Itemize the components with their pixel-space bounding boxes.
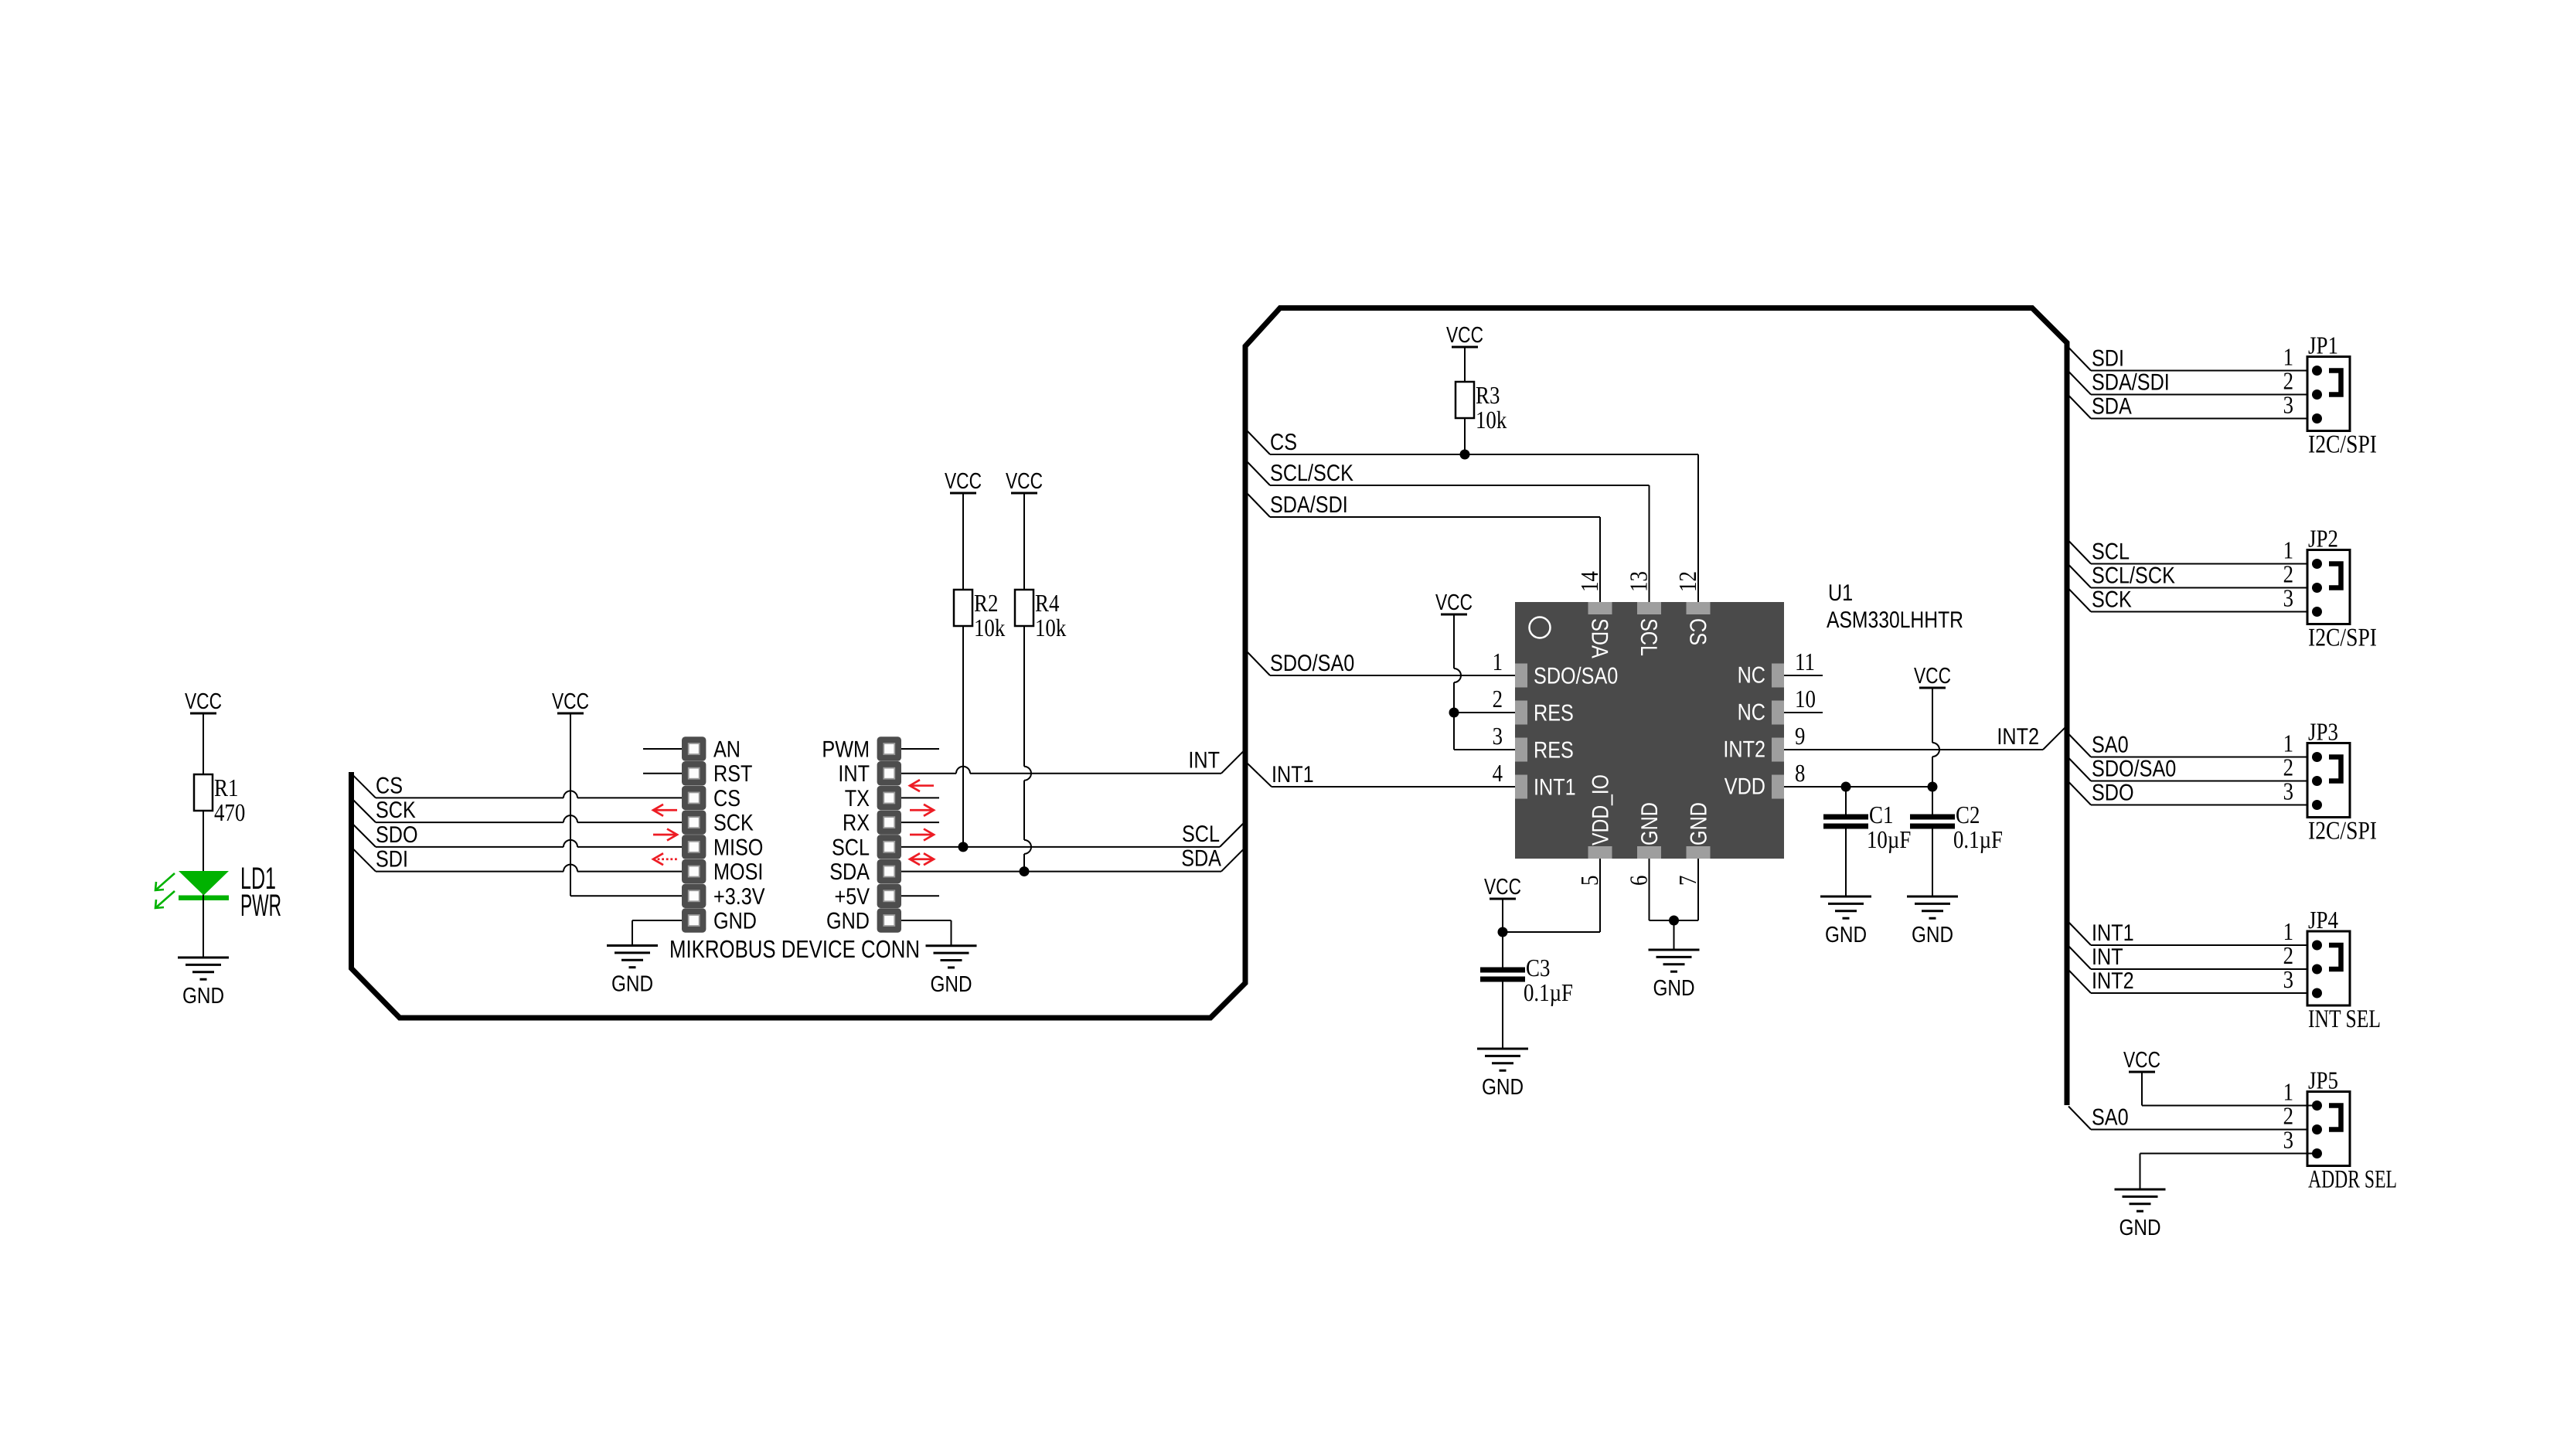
net SCK stub from bus frame to jumper: [2068, 587, 2317, 613]
svg-text:VCC: VCC: [1435, 590, 1473, 615]
svg-text:GND: GND: [611, 972, 653, 997]
connector JP3 (I2C/SPI) 1x3 header: [2283, 718, 2377, 845]
svg-text:3: 3: [2283, 965, 2293, 993]
svg-text:INT SEL: INT SEL: [2308, 1005, 2381, 1033]
connector JP2 (I2C/SPI) 1x3 header: [2283, 525, 2377, 652]
bus frame outline: [352, 308, 2068, 1106]
svg-text:INT: INT: [2092, 944, 2123, 970]
svg-text:VCC: VCC: [945, 469, 982, 494]
wire VCC junction to U1 pin 5: [1503, 859, 1600, 932]
net SDO/SA0 from bus frame to U1 pin 1: [1248, 651, 1515, 676]
net INT1 stub from bus frame to jumper: [2068, 920, 2317, 946]
svg-text:RES: RES: [1534, 738, 1574, 764]
wire stub RX: [901, 822, 939, 823]
power flag VCC at (1944,1163): [1484, 875, 1521, 900]
svg-text:VCC: VCC: [552, 689, 589, 714]
wire junction to C3: [1502, 932, 1503, 968]
wire left header GND to ground: [632, 920, 682, 946]
svg-text:VCC: VCC: [1006, 469, 1043, 494]
svg-text:I2C/SPI: I2C/SPI: [2308, 624, 2377, 652]
svg-text:VCC: VCC: [2123, 1048, 2160, 1073]
svg-text:JP5: JP5: [2308, 1066, 2338, 1094]
svg-text:CS: CS: [376, 773, 403, 798]
svg-text:GND: GND: [1482, 1075, 1524, 1100]
svg-text:C2: C2: [1956, 801, 1980, 828]
svg-text:10k: 10k: [1476, 406, 1507, 434]
svg-text:GND: GND: [182, 984, 224, 1009]
svg-text:10k: 10k: [974, 614, 1005, 641]
svg-text:1: 1: [1493, 648, 1503, 675]
junction C2/VCC: [1928, 782, 1938, 792]
junction RES tie: [1449, 708, 1459, 718]
svg-text:U1: U1: [1828, 580, 1853, 606]
svg-text:470: 470: [214, 798, 245, 826]
wire VCC to +3.3V pin: [570, 713, 682, 896]
svg-text:SCK: SCK: [376, 798, 416, 823]
net SDA/SDI stub from bus frame to jumper: [2068, 370, 2317, 396]
svg-text:INT2: INT2: [1723, 737, 1765, 763]
power flag VCC at (738,923): [552, 689, 589, 714]
mikroBUS right header CN-B: [877, 737, 901, 932]
svg-text:C1: C1: [1869, 801, 1893, 828]
svg-text:+3.3V: +3.3V: [713, 884, 765, 910]
wire VCC to JP5 pin 1: [2142, 1072, 2317, 1106]
label LD1 PWR: [240, 862, 281, 923]
svg-text:VCC: VCC: [1446, 323, 1483, 348]
svg-text:4: 4: [1493, 759, 1503, 787]
U1 pin numbers right: [1795, 648, 1816, 787]
net SDI stub from bus frame to jumper: [2068, 346, 2317, 372]
svg-text:SDO: SDO: [2092, 781, 2134, 806]
net SDO stub from bus frame to jumper: [2068, 781, 2317, 806]
svg-text:3: 3: [2283, 391, 2293, 419]
left header pin names: [713, 737, 765, 934]
net SCL/SCK from bus frame to U1 pin 13: [1248, 461, 1650, 602]
svg-text:SCL/SCK: SCL/SCK: [1270, 461, 1353, 486]
svg-text:VCC: VCC: [185, 689, 222, 714]
svg-text:9: 9: [1795, 722, 1805, 750]
svg-text:CS: CS: [1270, 430, 1297, 455]
svg-text:VCC: VCC: [1914, 664, 1951, 689]
wire R2 to SCL net: [962, 626, 964, 847]
power flag VCC at (1325,638): [1006, 469, 1043, 494]
svg-text:8: 8: [1795, 759, 1805, 787]
svg-text:GND: GND: [1653, 976, 1694, 1001]
svg-text:SDA: SDA: [1181, 846, 1221, 872]
svg-text:R2: R2: [974, 589, 998, 617]
net CS from bus frame to U1 pin 12: [1248, 430, 1698, 602]
svg-text:GND: GND: [1637, 802, 1663, 845]
svg-text:INT2: INT2: [2092, 968, 2134, 994]
svg-text:SDA/SDI: SDA/SDI: [1270, 492, 1348, 518]
net INT1 from bus frame to U1 pin 4: [1248, 762, 1515, 788]
wire stub RST: [643, 773, 682, 774]
svg-text:SDO/SA0: SDO/SA0: [1534, 664, 1618, 689]
wire R1 to LED LD1: [203, 811, 204, 898]
net SDA stub from bus frame to jumper: [2068, 394, 2317, 420]
net SCL from header to bus frame: [901, 822, 1244, 847]
LED emission arrows: [155, 873, 175, 908]
svg-text:SCK: SCK: [2092, 587, 2132, 613]
svg-text:GND: GND: [713, 908, 757, 934]
net SA0 stub from bus frame to jumper: [2068, 1105, 2317, 1131]
svg-text:7: 7: [1673, 876, 1701, 886]
svg-text:CS: CS: [713, 786, 741, 811]
svg-text:NC: NC: [1738, 700, 1765, 726]
net SA0 stub from bus frame to jumper: [2068, 733, 2317, 758]
svg-text:10k: 10k: [1035, 614, 1066, 641]
svg-text:RES: RES: [1534, 701, 1574, 726]
svg-text:INT1: INT1: [1534, 775, 1576, 801]
ground symbol at (818,1223.5): [607, 946, 658, 997]
svg-text:GND: GND: [2119, 1216, 2160, 1240]
svg-text:SDO/SA0: SDO/SA0: [2092, 757, 2176, 782]
svg-text:JP1: JP1: [2308, 332, 2338, 359]
svg-text:JP3: JP3: [2308, 718, 2338, 746]
svg-text:GND: GND: [1825, 923, 1867, 947]
svg-text:SCL/SCK: SCL/SCK: [2092, 563, 2175, 589]
svg-text:TX: TX: [845, 786, 870, 811]
ground symbol at (2768.5,1539): [2115, 1189, 2166, 1240]
svg-text:INT: INT: [1188, 748, 1220, 774]
svg-text:12: 12: [1673, 571, 1701, 592]
red direction arrows right header: [910, 780, 934, 865]
power flag VCC at (263,923): [185, 689, 222, 714]
svg-text:SDO/SA0: SDO/SA0: [1270, 651, 1354, 676]
svg-text:11: 11: [1795, 648, 1815, 675]
wire VCC to pin2/pin3 with hop over pin1 wire: [1454, 614, 1515, 750]
wire C1 to VDD net: [1845, 787, 1847, 815]
net SCK from bus frame to header: [352, 798, 682, 823]
svg-text:13: 13: [1625, 571, 1653, 592]
net SDA from header to bus frame: [901, 846, 1244, 872]
svg-text:0.1µF: 0.1µF: [1953, 825, 2003, 853]
svg-text:PWM: PWM: [822, 737, 870, 763]
svg-text:C3: C3: [1526, 954, 1550, 981]
svg-text:INT1: INT1: [1272, 762, 1314, 788]
net SDO/SA0 stub from bus frame to jumper: [2068, 757, 2317, 782]
U1 pin numbers top: [1575, 571, 1701, 592]
U1 pin numbers bottom: [1575, 876, 1701, 886]
svg-text:10µF: 10µF: [1867, 825, 1911, 853]
svg-text:SDA: SDA: [829, 859, 870, 885]
LED LD1 PWR (green): [179, 871, 229, 958]
power flag VCC at (1246,638): [945, 469, 982, 494]
junction C3/VDD_IO: [1498, 927, 1508, 937]
svg-text:CS: CS: [1685, 618, 1711, 645]
connector JP4 (INT SEL) 1x3 header: [2283, 906, 2381, 1033]
IC U1 ASM330LHHTR body: [1515, 602, 1784, 859]
net INT from header to bus frame: [901, 748, 1244, 774]
wire stub PWM: [901, 748, 939, 750]
svg-text:2: 2: [1493, 685, 1503, 713]
svg-text:3: 3: [1493, 722, 1503, 750]
wire U1 pins 6,7 to ground: [1650, 859, 1699, 950]
wire stub NC pin 10: [1784, 712, 1823, 713]
ground symbol at (2388,1160): [1820, 896, 1871, 947]
net SDO from bus frame to header: [352, 822, 682, 848]
capacitor C2 0.1µF: [1910, 801, 2003, 853]
svg-text:3: 3: [2283, 777, 2293, 805]
svg-text:R4: R4: [1035, 589, 1059, 617]
svg-text:R3: R3: [1476, 381, 1500, 409]
svg-text:SDO: SDO: [376, 822, 418, 848]
wire C2 to VDD net: [1932, 787, 1933, 815]
wire VCC to R3: [1464, 347, 1466, 382]
svg-text:VDD: VDD: [1725, 774, 1765, 800]
wire stub TX: [901, 797, 939, 798]
capacitor C3 0.1µF: [1480, 954, 1573, 1006]
svg-text:JP2: JP2: [2308, 525, 2338, 553]
wire stub AN: [643, 748, 682, 750]
svg-text:SCL: SCL: [1636, 618, 1661, 656]
wire right header GND to ground: [901, 920, 952, 946]
svg-text:SCL: SCL: [832, 835, 870, 860]
junction GND pins tie: [1669, 916, 1679, 926]
ground symbol at (1944,1357): [1477, 1049, 1528, 1100]
svg-text:I2C/SPI: I2C/SPI: [2308, 818, 2377, 845]
svg-text:0.1µF: 0.1µF: [1524, 978, 1573, 1006]
U1 pin name labels: [1534, 618, 1765, 845]
power flag VCC at (2500,890): [1914, 664, 1951, 689]
junction CS / R3: [1460, 450, 1470, 460]
U1 pin numbers left: [1493, 648, 1503, 787]
svg-text:VCC: VCC: [1484, 875, 1521, 900]
connector JP5 (ADDR SEL) 1x3 header: [2283, 1066, 2397, 1194]
svg-text:GND: GND: [826, 908, 870, 934]
svg-text:INT: INT: [838, 761, 870, 787]
svg-text:SDI: SDI: [376, 847, 408, 873]
resistor R3 10k: [1456, 381, 1507, 434]
svg-text:SDI: SDI: [2092, 346, 2124, 372]
svg-text:SA0: SA0: [2092, 733, 2129, 758]
svg-text:6: 6: [1625, 876, 1653, 886]
net SDI from bus frame to header: [352, 847, 682, 873]
wire C2 to GND: [1932, 828, 1933, 896]
svg-text:SDA: SDA: [1587, 618, 1612, 658]
wire stub NC pin 11: [1784, 675, 1823, 676]
connector JP1 (I2C/SPI) 1x3 header: [2283, 332, 2377, 459]
capacitor C1 10µF: [1823, 801, 1911, 853]
wire R4 to SDA net with hops: [1024, 626, 1031, 872]
svg-text:ASM330LHHTR: ASM330LHHTR: [1827, 607, 1963, 633]
resistor R2 10k: [954, 589, 1005, 641]
svg-text:RST: RST: [713, 761, 752, 787]
svg-text:SCL: SCL: [2092, 539, 2130, 565]
ground symbol at (2165.5,1229): [1649, 950, 1700, 1001]
svg-text:MISO: MISO: [713, 835, 763, 860]
svg-text:MOSI: MOSI: [713, 859, 763, 885]
svg-text:SCL: SCL: [1182, 822, 1220, 847]
svg-text:NC: NC: [1738, 663, 1765, 689]
power flag VCC at (2771,1387): [2123, 1048, 2160, 1073]
svg-text:5: 5: [1575, 876, 1603, 886]
wire VCC to R1: [203, 713, 204, 774]
right header pin names: [822, 737, 870, 934]
svg-text:+5V: +5V: [835, 884, 870, 910]
svg-text:INT1: INT1: [2092, 920, 2134, 946]
svg-text:INT2: INT2: [1997, 724, 2039, 750]
svg-text:3: 3: [2283, 1126, 2293, 1154]
resistor R4 10k: [1015, 589, 1066, 641]
svg-text:JP4: JP4: [2308, 906, 2338, 934]
wire stub +5V: [901, 895, 939, 896]
net INT2 from U1 pin 9 to bus frame: [1784, 724, 2066, 750]
svg-text:RX: RX: [843, 811, 870, 836]
net VDD from U1 pin 8 to decoupling caps: [1784, 786, 1932, 788]
wire VCC to R2: [962, 493, 964, 590]
net INT2 stub from bus frame to jumper: [2068, 968, 2317, 994]
wire R3 to CS net: [1464, 418, 1466, 454]
svg-text:10: 10: [1795, 685, 1816, 713]
svg-text:SA0: SA0: [2092, 1105, 2129, 1131]
svg-text:MIKROBUS DEVICE CONN: MIKROBUS DEVICE CONN: [669, 935, 920, 963]
net INT stub from bus frame to jumper: [2068, 944, 2317, 970]
svg-text:SDA/SDI: SDA/SDI: [2092, 370, 2170, 396]
svg-text:AN: AN: [713, 737, 741, 763]
wire VCC to R4: [1023, 493, 1025, 590]
wire C3 to GND: [1502, 981, 1503, 1049]
svg-text:SDA: SDA: [2092, 394, 2132, 420]
svg-text:ADDR SEL: ADDR SEL: [2308, 1166, 2397, 1194]
red direction arrows left header: [653, 805, 677, 865]
net SCL stub from bus frame to jumper: [2068, 539, 2317, 565]
junction C1: [1841, 782, 1851, 792]
net SDA/SDI from bus frame to U1 pin 14: [1248, 492, 1600, 602]
svg-text:VDD_IO: VDD_IO: [1588, 774, 1614, 845]
net SCL/SCK stub from bus frame to jumper: [2068, 563, 2317, 589]
svg-text:14: 14: [1575, 571, 1603, 592]
wire C1 to GND: [1845, 828, 1847, 896]
svg-text:I2C/SPI: I2C/SPI: [2308, 431, 2377, 459]
ground symbol at (1230.5,1223.75): [926, 946, 977, 997]
ground symbol at (2500,1160): [1907, 896, 1958, 947]
power flag VCC at (1881,795): [1435, 590, 1473, 615]
power flag VCC at (1895,449): [1446, 323, 1483, 348]
svg-text:SCK: SCK: [713, 811, 754, 836]
svg-text:GND: GND: [1912, 923, 1953, 947]
wire VCC to VDD with hop over INT2: [1932, 688, 1939, 787]
wire JP5 pin 3 to ground: [2140, 1154, 2317, 1190]
svg-text:3: 3: [2283, 584, 2293, 612]
svg-text:GND: GND: [1687, 802, 1712, 845]
net CS from bus frame to header: [352, 773, 682, 798]
junction SDA / R4: [1020, 866, 1030, 876]
junction SCL / R2: [958, 842, 969, 852]
mikroBUS left header CN-A: [682, 737, 706, 932]
ground symbol at (263,1239): [178, 958, 229, 1009]
U1 reference label: [1827, 580, 1963, 633]
resistor R1 470: [194, 774, 245, 826]
svg-text:PWR: PWR: [240, 889, 281, 923]
svg-text:R1: R1: [214, 774, 238, 801]
svg-text:GND: GND: [930, 972, 972, 997]
